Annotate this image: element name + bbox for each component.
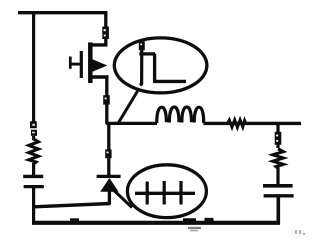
inductor L1 <box>157 107 204 123</box>
wire diode return <box>34 204 111 207</box>
wire diode branch upper <box>107 124 110 175</box>
capacitor C2 plate2 <box>264 194 294 197</box>
wire left branch upper <box>32 11 35 122</box>
capacitor C1 plate1 <box>23 175 43 178</box>
callout ellipse voltage waveform <box>114 38 207 93</box>
waveform dc line <box>135 192 195 195</box>
capacitor C1 plate2 <box>24 185 44 188</box>
capacitor C2 plate1 <box>263 184 293 188</box>
node mark drain <box>102 27 109 40</box>
tick 1 <box>146 182 149 205</box>
resistor R3 right <box>273 149 283 168</box>
wire bottom rail <box>32 221 280 225</box>
artifact marks under wire <box>188 227 201 232</box>
wire switch node <box>106 122 157 125</box>
tick 2 <box>163 181 166 205</box>
wire <box>276 168 279 185</box>
resistor R1 left <box>29 136 39 164</box>
wire right branch upper <box>276 124 279 148</box>
node mark source <box>103 95 110 104</box>
junction marks on bottom wire <box>183 218 214 222</box>
wire top rail <box>18 11 107 14</box>
callout tail <box>114 190 133 208</box>
transistor Q1 MOSFET <box>69 42 109 83</box>
node mark right branch <box>275 132 282 145</box>
resistor R2 series <box>228 120 246 128</box>
waveform pulse <box>139 41 186 85</box>
callout ellipse current waveform <box>127 165 206 218</box>
wire drain vertical <box>104 11 107 46</box>
wire right branch lower <box>276 198 280 225</box>
artifact marks corner <box>295 230 305 235</box>
node mark left branch <box>30 121 37 136</box>
diode D1 <box>97 176 121 204</box>
wire source vertical <box>105 77 108 124</box>
wire left branch lower <box>32 188 35 224</box>
wire switch node right <box>204 122 302 125</box>
junction mark bottom wire <box>70 218 79 221</box>
wire <box>32 163 35 175</box>
node mark diode <box>105 149 111 158</box>
tick 3 <box>179 181 182 205</box>
callout tail <box>119 91 138 123</box>
